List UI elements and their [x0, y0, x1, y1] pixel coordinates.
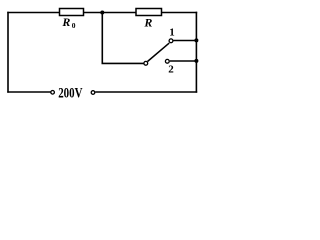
svg-text:R: R — [143, 15, 152, 29]
node junction dot right bus lower — [194, 59, 198, 63]
svg-text:R: R — [61, 15, 70, 29]
svg-text:0: 0 — [72, 21, 76, 30]
wire: horizontal to switch common — [102, 62, 144, 64]
svg-text:200V: 200V — [58, 85, 83, 101]
switch contact 2 (open circle) — [165, 59, 169, 63]
svg-text:1: 1 — [169, 26, 175, 38]
wire: left vertical — [7, 12, 9, 93]
svg-text:2: 2 — [168, 63, 174, 75]
switch blade — [148, 43, 170, 61]
switch contact 1 (open circle) — [169, 39, 173, 43]
wire: top-left horizontal (left corner to R0) — [7, 12, 59, 14]
resistor R0 (box) — [60, 9, 84, 16]
node junction dot at top (tap between R0 and R) — [100, 11, 104, 15]
wire: contact 1 to right bus — [173, 40, 196, 42]
supply terminal left (open circle) — [51, 91, 55, 95]
wire: top right (R to right corner) — [162, 12, 198, 14]
wire: bottom right segment — [95, 91, 197, 93]
wire: right vertical — [195, 12, 197, 93]
wire: contact 2 to right bus — [170, 60, 197, 62]
resistor R (box) — [136, 9, 162, 16]
node junction dot right bus upper — [194, 38, 198, 42]
wire: top middle (R0 to R) — [84, 12, 137, 14]
supply terminal right (open circle) — [91, 91, 95, 95]
switch common terminal (open circle) — [144, 61, 148, 65]
wire: middle vertical down to switch — [101, 13, 103, 64]
wire: bottom left segment — [7, 91, 50, 93]
